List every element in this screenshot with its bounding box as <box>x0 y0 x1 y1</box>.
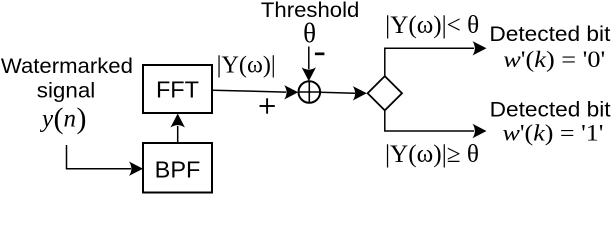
svg-text:|Y(ω)|: |Y(ω)| <box>217 52 276 78</box>
svg-text:signal: signal <box>37 80 96 103</box>
label Detected bit 0 <box>489 23 610 72</box>
svg-text:(: ( <box>54 102 64 135</box>
svg-text:Watermarked: Watermarked <box>1 55 133 78</box>
svg-text:FFT: FFT <box>156 77 199 103</box>
summing junction <box>299 81 321 103</box>
wire summing junction to decision <box>320 86 367 100</box>
wire threshold to summing junction <box>302 47 316 82</box>
label Watermarked signal y(n) <box>1 55 133 135</box>
svg-text:Detected bit: Detected bit <box>490 99 611 122</box>
svg-text:Detected bit: Detected bit <box>489 23 610 46</box>
svg-text:BPF: BPF <box>155 157 201 183</box>
label plus sign <box>260 98 275 113</box>
decision diamond <box>368 76 402 110</box>
svg-text:θ: θ <box>303 18 316 48</box>
label Detected bit 1 <box>490 99 611 146</box>
svg-text:w'(k) = '0': w'(k) = '0' <box>503 47 605 72</box>
wire BPF to FFT <box>171 114 185 143</box>
wire FFT to summing junction <box>213 85 298 99</box>
wire decision to detected bit 1 <box>385 110 487 138</box>
svg-text:w'(k) = '1': w'(k) = '1' <box>503 120 604 145</box>
svg-text:y: y <box>39 106 54 133</box>
block FFT <box>143 65 212 113</box>
block BPF <box>143 143 212 193</box>
wire input to BPF <box>67 145 144 176</box>
label minus sign <box>315 53 325 56</box>
svg-text:|Y(ω)|≥ θ: |Y(ω)|≥ θ <box>385 141 479 168</box>
svg-text:|Y(ω)|< θ: |Y(ω)|< θ <box>385 12 479 39</box>
svg-text:n: n <box>64 106 77 133</box>
wire decision to detected bit 0 <box>385 41 487 76</box>
svg-text:): ) <box>77 102 87 135</box>
